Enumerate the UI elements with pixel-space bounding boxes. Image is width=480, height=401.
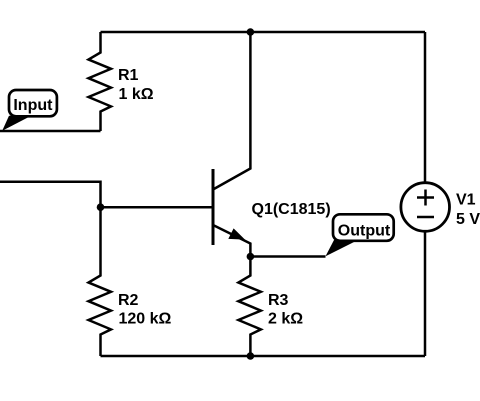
svg-text:R1: R1: [118, 67, 139, 84]
node junction emitter: [247, 253, 255, 261]
wire top rail: [101, 31, 426, 34]
svg-text:Q1(C1815): Q1(C1815): [252, 201, 331, 218]
resistor R2: [89, 207, 112, 356]
svg-text:1 kΩ: 1 kΩ: [119, 86, 154, 103]
svg-text:V1: V1: [456, 191, 476, 208]
output callout: [326, 214, 394, 256]
transistor Q1: [213, 32, 250, 257]
resistor R1: [89, 32, 112, 131]
wire input lower (left edge to base branch): [0, 182, 101, 208]
wire input upper (R1 bottom to left edge): [0, 130, 101, 133]
minus sign: [417, 216, 434, 219]
emitter arrow: [228, 228, 245, 239]
svg-text:Output: Output: [338, 223, 391, 240]
wire right rail lower: [424, 233, 427, 357]
wire base: [101, 206, 213, 209]
svg-text:R3: R3: [268, 292, 289, 309]
voltage source V1: [401, 183, 450, 232]
svg-text:5 V: 5 V: [456, 211, 480, 228]
wire output: [250, 255, 325, 258]
resistor R3: [238, 257, 261, 357]
emitter: [213, 225, 250, 257]
node junction base: [97, 203, 105, 211]
wire right rail upper: [424, 32, 427, 182]
base bar: [212, 169, 215, 245]
svg-text:120 kΩ: 120 kΩ: [119, 311, 172, 328]
node junction bottom (R3 to rail): [247, 352, 255, 360]
svg-text:R2: R2: [118, 292, 139, 309]
node junction top (collector to rail): [247, 28, 255, 36]
svg-text:2 kΩ: 2 kΩ: [268, 311, 303, 328]
collector: [213, 32, 250, 190]
svg-text:Input: Input: [13, 97, 53, 114]
plus sign: [417, 196, 434, 199]
input callout: [2, 90, 57, 131]
wire bottom rail: [101, 355, 426, 358]
